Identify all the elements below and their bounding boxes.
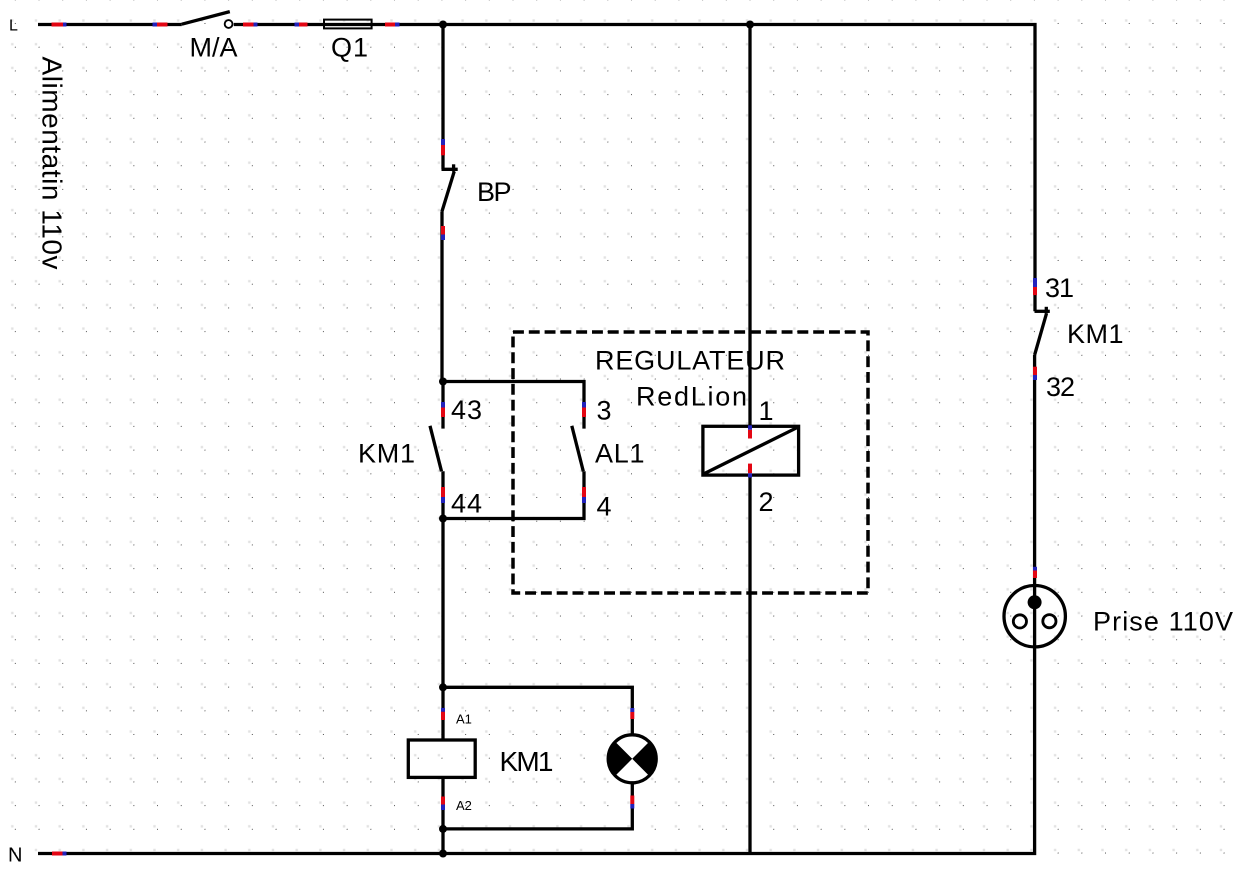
terminal mark above BP [441, 139, 445, 155]
svg-text:32: 32 [1046, 372, 1075, 402]
svg-text:43: 43 [451, 395, 482, 425]
wire node 43 to contact KM1 [441, 382, 444, 429]
coil KM1 (contactor coil) [408, 740, 475, 777]
terminal mark relay 1 [748, 425, 752, 438]
wire right vertical 32 to N rail corner and N rail [38, 355, 1035, 854]
terminal mark before Q1 [295, 23, 308, 27]
terminal mark socket top [1033, 567, 1037, 578]
svg-text:31: 31 [1045, 273, 1074, 303]
svg-text:M/A: M/A [190, 33, 238, 63]
wire L rail left segment [38, 23, 182, 26]
wire L rail from M/A to right corner and right vertical down to 31 [234, 25, 1035, 312]
terminal mark 43 [441, 402, 445, 417]
wire 44 to node A1 [441, 471, 444, 687]
svg-text:44: 44 [451, 489, 482, 519]
wire BP to node 43 [440, 212, 443, 382]
svg-text:Q1: Q1 [331, 33, 368, 63]
svg-text:KM1: KM1 [500, 746, 554, 777]
terminal mark below BP [441, 226, 445, 240]
contact BP (push button) [442, 164, 458, 212]
socket Prise 110V [1004, 586, 1065, 647]
node 44 junction [439, 515, 447, 523]
wire relay coil to N rail [748, 475, 751, 853]
junction at L rail / regulator vertical [746, 21, 754, 29]
terminal mark lamp top [630, 708, 634, 719]
svg-text:Alimentatin 110v: Alimentatin 110v [37, 57, 68, 270]
node A2 junction [439, 825, 447, 833]
svg-text:N: N [8, 845, 22, 867]
svg-text:A2: A2 [456, 798, 472, 813]
node 43 junction [439, 378, 447, 386]
junction at N rail [439, 850, 447, 858]
svg-text:KM1: KM1 [1067, 319, 1124, 349]
svg-text:3: 3 [597, 396, 612, 426]
contact AL1 3/4 [572, 426, 584, 472]
svg-text:1: 1 [759, 396, 774, 426]
REGULATEUR enclosure (dashed) [513, 332, 868, 593]
terminal mark 4 [582, 487, 586, 503]
junction at L rail / main vertical [439, 21, 447, 29]
wire lamp branch top [443, 687, 632, 735]
wire coil KM1 to N rail [441, 777, 444, 853]
svg-text:A1: A1 [456, 712, 472, 727]
wire lamp branch bottom [443, 783, 632, 829]
svg-text:4: 4 [597, 492, 612, 522]
svg-text:KM1: KM1 [358, 439, 415, 469]
terminal mark 3 [582, 402, 586, 417]
svg-text:Prise 110V: Prise 110V [1093, 607, 1233, 637]
lamp H1 [608, 735, 656, 783]
terminal mark lamp bottom [630, 796, 634, 809]
svg-text:AL1: AL1 [595, 439, 645, 469]
wire AL1 branch loop [443, 382, 584, 519]
contact KM1 31/32 [1035, 307, 1050, 355]
wire node A1 to coil KM1 [441, 687, 444, 740]
terminal mark N rail start [52, 852, 67, 856]
wire main vertical from L rail to BP [441, 25, 444, 170]
switch M/A [182, 12, 233, 28]
terminal mark 31 [1033, 278, 1037, 295]
svg-text:2: 2 [759, 487, 774, 517]
terminal mark A1 [441, 708, 445, 720]
terminal mark L rail start [52, 23, 67, 27]
terminal mark A2 [441, 797, 445, 811]
fuse Q1 [324, 20, 372, 29]
relay coil U1 (REGULATEUR output 1/2) [703, 426, 799, 475]
terminal mark relay 2 [748, 464, 752, 478]
svg-text:BP: BP [477, 177, 512, 207]
svg-text:L: L [9, 18, 18, 35]
terminal mark 32 [1033, 367, 1037, 380]
wire regulator vertical from L rail to relay coil [748, 25, 751, 427]
contact KM1 43/44 [430, 426, 442, 472]
terminal mark after M/A [243, 23, 258, 27]
terminal mark 44 [441, 487, 445, 503]
terminal mark after Q1 [385, 23, 400, 27]
node A1 junction [439, 683, 447, 691]
terminal mark before M/A [153, 23, 168, 27]
svg-text:REGULATEUR: REGULATEUR [595, 346, 785, 376]
